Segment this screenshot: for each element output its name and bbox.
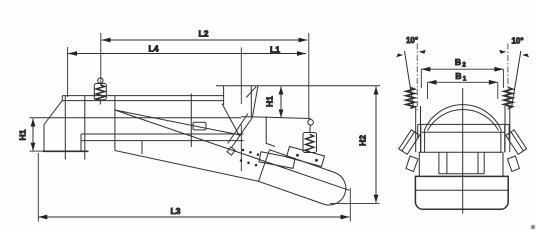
dimension H1 right	[265, 87, 284, 118]
svg-text:2: 2	[462, 63, 466, 69]
load cell plate	[287, 147, 325, 167]
frame top line	[216, 85, 380, 87]
pivot square	[227, 147, 235, 155]
svg-text:L4: L4	[149, 44, 159, 54]
load cell LC1	[94, 78, 106, 105]
frame top tick	[223, 86, 225, 105]
svg-text:10°: 10°	[511, 37, 523, 46]
angle 10 deg left	[396, 36, 426, 110]
dimension H1 left	[18, 119, 45, 152]
wing right	[506, 130, 527, 172]
center hanger line	[308, 86, 310, 119]
belt arc outer	[424, 105, 501, 131]
svg-text:H1: H1	[265, 96, 275, 107]
load cell LC2	[303, 120, 317, 153]
svg-text:10°: 10°	[406, 36, 418, 45]
base	[415, 176, 508, 209]
svg-text:1: 1	[463, 77, 467, 83]
hanger strut to pivot	[232, 118, 253, 148]
angle 10 deg right	[499, 37, 529, 111]
dimension L2	[101, 29, 309, 87]
belt arc inner	[428, 109, 499, 130]
boom upper diagonal	[115, 110, 241, 135]
svg-text:B: B	[455, 57, 461, 67]
upper box bottom	[419, 151, 503, 153]
end view centerline	[462, 88, 464, 214]
hanger link to hook	[241, 117, 310, 119]
svg-text:L2: L2	[199, 29, 209, 39]
junction box	[193, 122, 206, 130]
discharge drum	[259, 150, 346, 205]
frame horizontal upper	[418, 123, 509, 125]
tower hanger legs	[246, 86, 258, 118]
svg-text:L1: L1	[270, 44, 280, 54]
dotted curtain	[240, 149, 260, 167]
corner mark	[531, 225, 536, 230]
dimension L4 / L1	[68, 44, 306, 172]
frame side verticals	[418, 124, 509, 152]
frame lower line	[30, 117, 242, 119]
dimension H2	[330, 87, 380, 204]
boom left vertical	[114, 96, 116, 151]
frame horizontal lower	[422, 131, 506, 133]
svg-text:B: B	[455, 71, 461, 81]
lower beam	[81, 134, 244, 151]
svg-text:H2: H2	[358, 135, 368, 146]
svg-text:H1: H1	[18, 129, 28, 140]
left pedestal	[43, 96, 89, 160]
beam end diagonal	[222, 104, 240, 136]
dimension B1	[428, 71, 498, 99]
boom main diagonal	[115, 110, 349, 190]
middle box	[419, 152, 503, 176]
weigh beam	[63, 96, 225, 101]
hanger rod	[190, 94, 192, 148]
spring left	[406, 88, 414, 109]
dimension B2	[421, 57, 503, 88]
skirt edge	[266, 116, 275, 146]
spring right	[504, 88, 512, 109]
wing left	[399, 130, 420, 172]
posts left	[416, 106, 421, 152]
lever bar	[259, 152, 295, 169]
posts right	[505, 106, 510, 152]
hanger tick	[141, 141, 143, 154]
boom bottom edge	[115, 151, 259, 182]
hanger strut outer	[228, 114, 248, 144]
svg-text:L3: L3	[171, 206, 181, 216]
dimension L3	[38, 153, 350, 222]
